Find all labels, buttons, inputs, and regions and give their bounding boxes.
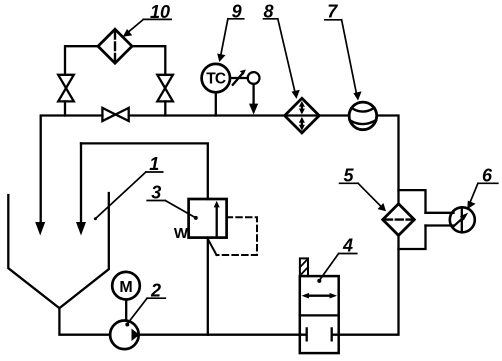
svg-text:7: 7 xyxy=(327,1,338,21)
wire main top line right segment with corner down xyxy=(377,116,399,204)
node arrow onto main line xyxy=(249,104,258,115)
svg-text:TC: TC xyxy=(206,71,226,88)
svg-text:5: 5 xyxy=(343,165,354,185)
pump 2 triangle xyxy=(132,329,140,341)
wire filter 5 bypass top xyxy=(399,190,426,213)
gauge 6 arrow xyxy=(453,219,462,227)
tank 1 walls xyxy=(8,193,109,308)
wire bypass 10 top right from filter xyxy=(132,46,165,75)
wire main top line middle segment xyxy=(129,114,349,116)
wire TC stub xyxy=(215,92,217,115)
motor M circle xyxy=(112,272,140,300)
heat exchanger 8 diamond xyxy=(285,98,320,133)
relief valve 3 pilot diagonal xyxy=(208,240,216,255)
relief valve 3 square xyxy=(189,199,227,238)
wire tank outlet to pump xyxy=(59,308,110,335)
sensor TC circle U9 xyxy=(202,64,230,92)
valve main line xyxy=(102,108,128,121)
valve 4 divider xyxy=(300,314,339,316)
gauge 6 circle xyxy=(450,207,475,232)
valve 4 top cell arrow xyxy=(306,295,334,297)
valve 4 actuator hatched box xyxy=(300,258,308,276)
node arrow into tank (left drop) xyxy=(35,222,45,236)
filter F10 dashed element xyxy=(114,31,116,62)
flow indicator 7 xyxy=(349,102,377,130)
wire bypass 10 lower-right xyxy=(164,101,166,115)
heat exchanger 8 arrows xyxy=(301,105,303,127)
wire inner loop horizontal xyxy=(81,143,208,199)
valve 4 bottom cell blocked ports xyxy=(300,328,339,340)
gauge 6 vertical line xyxy=(461,207,463,232)
pilot small circle xyxy=(248,72,260,84)
wire bypass 10 upper-left and top to filter xyxy=(65,46,98,75)
wire main top line left segment xyxy=(41,116,103,225)
wire inner loop left drop xyxy=(80,143,82,224)
valve upper-right bypass xyxy=(157,75,173,102)
relief valve 3 internal arrow xyxy=(216,207,218,237)
svg-text:W: W xyxy=(174,225,189,242)
svg-text:1: 1 xyxy=(149,154,159,174)
svg-text:4: 4 xyxy=(342,236,353,256)
wire below relief valve 3 xyxy=(207,238,209,335)
valve 4 body xyxy=(300,276,339,353)
wire gauge stub bottom xyxy=(426,224,454,226)
filter F5 dashed element xyxy=(385,218,412,220)
node arrow into tank (inner drop) xyxy=(76,222,86,236)
wire bypass 10 lower-left xyxy=(64,101,66,115)
wire gauge stub top xyxy=(426,212,454,214)
filter F5 xyxy=(383,204,415,236)
valve upper-left bypass xyxy=(58,75,74,102)
wire bottom line pump to valve xyxy=(139,334,300,336)
wire TC to pilot circle xyxy=(230,77,248,79)
svg-text:M: M xyxy=(119,279,132,296)
svg-text:6: 6 xyxy=(482,165,493,185)
regulation arrow on TC link xyxy=(233,74,242,85)
wire filter 5 bypass bottom xyxy=(399,226,426,250)
filter F10 xyxy=(98,29,132,63)
pump 2 circle xyxy=(110,321,139,350)
wire motor to pump connector xyxy=(125,300,127,321)
wire right vertical lower + bottom right corner xyxy=(339,235,399,334)
relief valve 3 pilot dashed line xyxy=(217,217,258,255)
wire pilot circle drop xyxy=(252,84,254,105)
